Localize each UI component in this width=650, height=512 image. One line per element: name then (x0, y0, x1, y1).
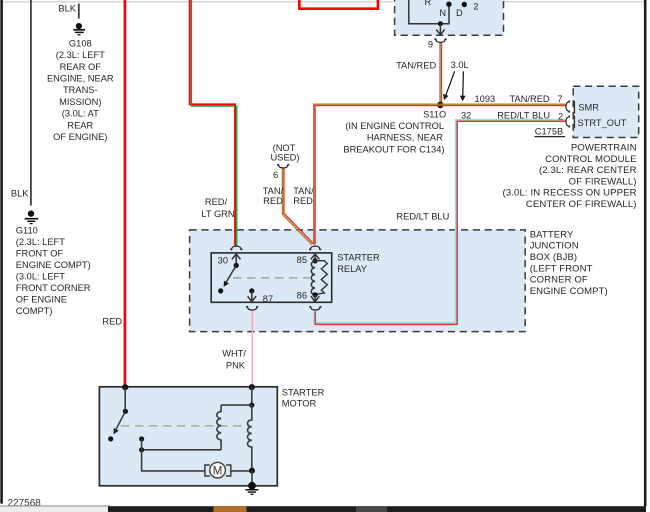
label BJB description (530, 229, 608, 297)
wire TAN/RED pin9 to S110 (396, 43, 441, 104)
wire RED/LT GRN to relay 30 (190, 0, 237, 246)
svg-text:RED/: RED/ (205, 197, 228, 207)
svg-text:(2.3L: LEFT: (2.3L: LEFT (16, 237, 65, 247)
svg-text:BREAKOUT FOR C134): BREAKOUT FOR C134) (343, 144, 444, 154)
svg-text:6: 6 (273, 170, 278, 180)
terminal 87 arrow (248, 291, 256, 302)
svg-text:(3.0L: LEFT: (3.0L: LEFT (16, 272, 65, 282)
connector cup PCM pin 7 (566, 101, 570, 112)
svg-text:PNK: PNK (226, 360, 246, 370)
svg-text:M: M (213, 466, 223, 478)
powertrain control module box U1 (573, 86, 639, 137)
terminal 87 node (249, 288, 254, 293)
node N contact (446, 1, 451, 6)
label TAN/RED left (263, 186, 284, 206)
label ground G110 (16, 226, 91, 317)
svg-text:LT GRN: LT GRN (201, 209, 234, 219)
svg-text:COMPT): COMPT) (16, 306, 53, 316)
wire inside range switch (409, 0, 449, 24)
wire to motor (142, 450, 205, 471)
relay switch arm (221, 265, 236, 288)
svg-text:SMR: SMR (578, 103, 599, 113)
svg-text:9: 9 (428, 40, 433, 50)
relay switch contact node (218, 288, 223, 293)
svg-text:FRONT OF: FRONT OF (16, 249, 64, 259)
ground leg wire (251, 471, 253, 486)
svg-text:FRONT CORNER: FRONT CORNER (16, 283, 91, 293)
red highlight box (cut off at top) (299, 0, 378, 9)
ground G110 (25, 210, 39, 223)
svg-text:(NOT: (NOT (273, 143, 296, 153)
battery junction box BJB (190, 230, 526, 332)
connector pin 9 (428, 39, 446, 50)
svg-text:BOX (BJB): BOX (BJB) (530, 252, 578, 263)
page left border (0, 0, 3, 504)
svg-text:OF ENGINE): OF ENGINE) (53, 132, 107, 142)
starter plunger dashed link (121, 425, 250, 427)
svg-text:OF FIREWALL): OF FIREWALL) (569, 176, 637, 187)
wire with arrow out of range switch (436, 24, 444, 35)
svg-text:85: 85 (297, 255, 307, 265)
wire motor to ground leg (231, 470, 252, 472)
taskbar black bar (108, 506, 646, 512)
starter relay K1 box (211, 253, 332, 302)
svg-text:TAN/RED: TAN/RED (396, 61, 436, 71)
svg-text:(3.0L: IN RECESS ON UPPER: (3.0L: IN RECESS ON UPPER (503, 188, 637, 199)
starter switch pivot node (123, 409, 128, 414)
ground G108 (73, 23, 85, 35)
svg-text:CENTER OF FIREWALL): CENTER OF FIREWALL) (526, 199, 637, 210)
wire BLK to G108 (58, 4, 78, 19)
svg-text:BATTERY: BATTERY (530, 229, 574, 240)
page right border (644, 0, 647, 506)
svg-text:86: 86 (297, 290, 307, 300)
svg-text:(2.3L: REAR CENTER: (2.3L: REAR CENTER (539, 165, 637, 176)
transmission range switch box (cut off at top) (395, 0, 504, 35)
connector cup PCM pin 2 (566, 116, 570, 127)
relay switch pivot node (234, 263, 239, 268)
terminal 86 arrow (311, 295, 319, 302)
svg-text:STARTER: STARTER (337, 253, 380, 263)
relay coil (311, 261, 315, 295)
starter motor box (99, 387, 277, 486)
svg-text:JUNCTION: JUNCTION (530, 241, 579, 252)
hold-in winding coil (248, 405, 252, 471)
solenoid feed wire (251, 387, 253, 405)
label starter motor (282, 387, 325, 408)
node D contact (462, 2, 467, 7)
wire TAN/RED pin6 to relay 85 (282, 168, 313, 244)
pull-in winding top wire (221, 404, 252, 406)
relay coil top node (313, 258, 318, 263)
taskbar light segment (0, 507, 110, 512)
svg-text:RED: RED (263, 196, 283, 206)
connector cap relay terminal 85 (310, 246, 321, 250)
svg-text:R: R (424, 0, 431, 7)
svg-text:G108: G108 (69, 38, 92, 48)
label TAN/RED right (293, 186, 314, 206)
wire BLK to G110 (11, 0, 31, 206)
relay armature dashed link (233, 277, 310, 279)
svg-text:7: 7 (557, 94, 562, 104)
svg-text:2: 2 (473, 1, 478, 11)
node WHT/PNK wire entry (249, 384, 255, 390)
terminal 30 arrow (232, 254, 241, 266)
svg-text:TAN/RED: TAN/RED (510, 94, 550, 104)
svg-text:(2.3L: LEFT: (2.3L: LEFT (56, 50, 105, 60)
starter switch arm (111, 411, 125, 435)
wire WHT/PNK relay 87 to starter motor (222, 311, 252, 387)
PCM pin tick STRT_OUT (573, 116, 575, 129)
svg-text:REAR: REAR (67, 120, 93, 130)
wire RED to starter motor (102, 0, 125, 388)
svg-text:WHT/: WHT/ (222, 348, 246, 358)
terminal 85 arrow (311, 254, 320, 261)
svg-text:STRT_OUT: STRT_OUT (578, 118, 627, 128)
svg-text:(IN ENGINE CONTROL: (IN ENGINE CONTROL (345, 121, 444, 131)
svg-text:(3.0L: AT: (3.0L: AT (62, 109, 99, 119)
motor ground junction node (249, 468, 255, 474)
svg-text:ENGINE COMPT): ENGINE COMPT) (530, 286, 608, 297)
label PCM description (503, 143, 637, 210)
svg-text:(LEFT FRONT: (LEFT FRONT (530, 263, 593, 274)
svg-text:RED/LT BLU: RED/LT BLU (396, 212, 449, 222)
ground starter motor (245, 490, 258, 495)
svg-text:N: N (439, 8, 446, 18)
svg-text:3.0L: 3.0L (451, 60, 469, 70)
motor M1 (205, 462, 231, 478)
connector pin 6 not used (271, 143, 300, 180)
solenoid junction node (249, 403, 254, 408)
svg-text:2: 2 (558, 112, 563, 122)
window bottom edge line (0, 505, 110, 507)
svg-text:BLK: BLK (58, 4, 76, 14)
svg-text:USED): USED) (271, 153, 300, 163)
svg-text:C175B: C175B (535, 127, 563, 137)
svg-text:RED: RED (102, 316, 122, 326)
wire TAN/RED S110 to PCM pin7 and relay 85 (314, 104, 566, 244)
relay suppression resistor (315, 261, 327, 295)
svg-text:S11O: S11O (423, 110, 446, 120)
svg-text:ENGINE COMPT): ENGINE COMPT) (16, 260, 91, 270)
wire RED/LT BLU PCM pin2 to relay 86 (314, 120, 566, 325)
page top border line (0, 1, 646, 3)
svg-text:TAN/: TAN/ (293, 186, 314, 196)
label ground G108 (47, 38, 114, 142)
node output junction (438, 21, 443, 26)
connector cup relay terminal 86 (310, 307, 321, 311)
ground node on case (248, 482, 256, 490)
svg-text:RED: RED (293, 196, 313, 206)
svg-text:RED/LT BLU: RED/LT BLU (497, 110, 550, 120)
svg-text:CORNER OF: CORNER OF (530, 275, 588, 286)
pull-in winding bottom wire (142, 449, 222, 451)
motor contact nodes (139, 436, 144, 452)
svg-text:32: 32 (461, 110, 471, 120)
svg-text:MOTOR: MOTOR (282, 398, 317, 408)
taskbar orange segment (214, 506, 247, 512)
label starter relay (337, 253, 380, 274)
svg-text:TAN/: TAN/ (263, 186, 284, 196)
starter switch feed wire (124, 387, 126, 411)
svg-text:POWERTRAIN: POWERTRAIN (571, 143, 637, 154)
svg-text:TRANS-: TRANS- (63, 85, 98, 95)
svg-text:G110: G110 (16, 226, 38, 236)
svg-text:HARNESS, NEAR: HARNESS, NEAR (367, 133, 443, 143)
taskbar gray segment (356, 506, 387, 512)
taskbar right white corner (646, 506, 650, 512)
svg-text:RELAY: RELAY (337, 264, 367, 274)
pull-in winding coil (217, 405, 221, 450)
node RED wire entry (122, 384, 128, 390)
connector cup relay terminal 87 (247, 307, 258, 311)
svg-text:STARTER: STARTER (282, 387, 325, 397)
connector cap relay terminal 30 (231, 246, 242, 250)
svg-text:MISSION): MISSION) (59, 97, 101, 107)
svg-text:BLK: BLK (11, 188, 29, 198)
svg-text:ENGINE, NEAR: ENGINE, NEAR (47, 74, 114, 84)
node splice S110 (343, 102, 446, 155)
relay coil bottom node (313, 292, 318, 297)
svg-text:87: 87 (263, 294, 273, 304)
svg-text:D: D (456, 8, 463, 18)
svg-text:30: 30 (218, 255, 228, 265)
starter switch contact node (108, 436, 113, 441)
svg-text:1093: 1093 (475, 94, 496, 104)
label connector C175B (535, 127, 566, 137)
PCM pin tick SMR (573, 101, 575, 114)
label 3.0L with pointers (441, 60, 469, 102)
svg-text:OF ENGINE: OF ENGINE (16, 295, 67, 305)
svg-text:REAR OF: REAR OF (60, 62, 102, 72)
svg-text:CONTROL MODULE: CONTROL MODULE (545, 154, 637, 165)
